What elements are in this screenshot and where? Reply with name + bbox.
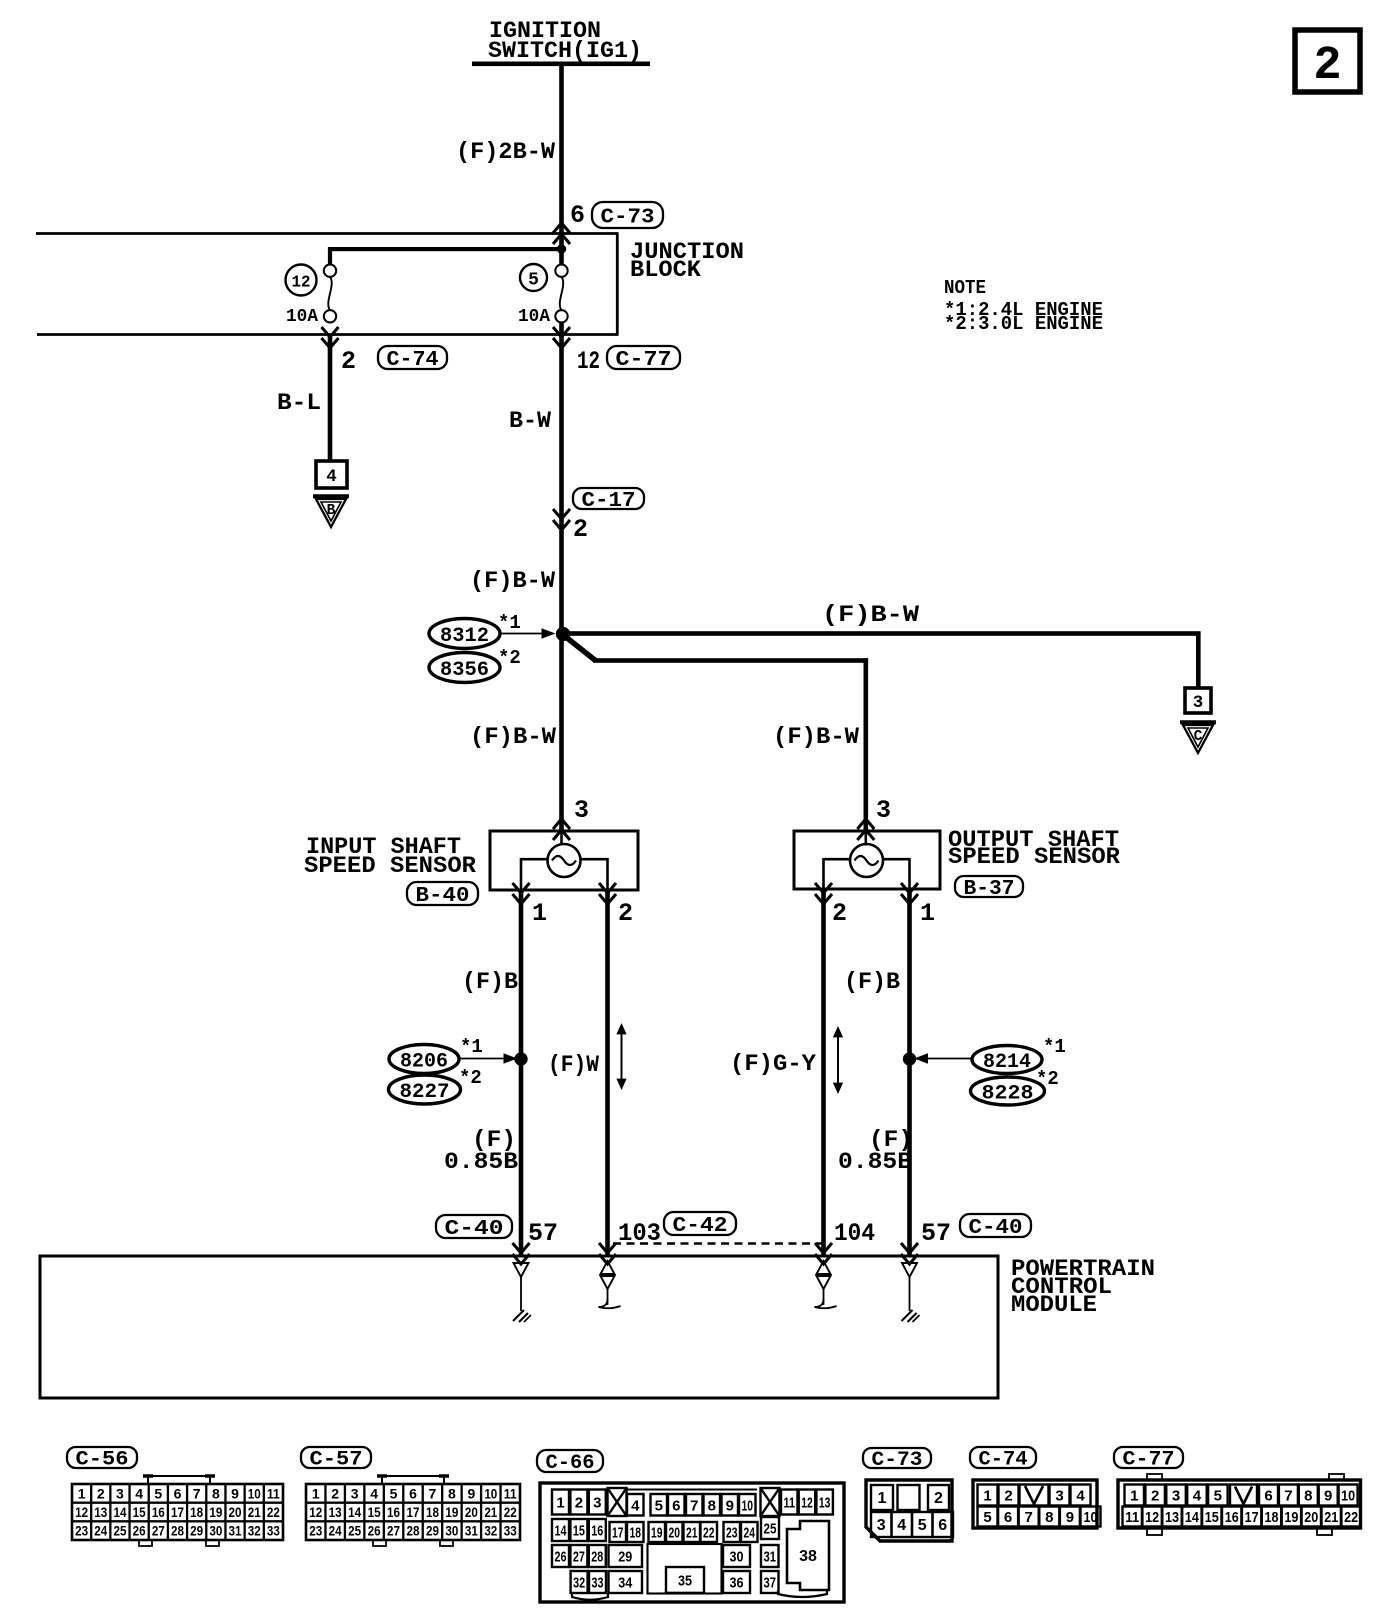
svg-text:23: 23 xyxy=(726,1525,738,1542)
svg-text:38: 38 xyxy=(799,1548,817,1565)
svg-text:(F)B: (F)B xyxy=(462,969,518,996)
svg-text:12: 12 xyxy=(75,1504,88,1520)
svg-text:26: 26 xyxy=(133,1523,146,1539)
svg-text:30: 30 xyxy=(730,1549,744,1566)
svg-text:21: 21 xyxy=(248,1504,261,1520)
svg-text:2: 2 xyxy=(573,515,588,544)
svg-text:B: B xyxy=(327,503,336,519)
svg-text:7: 7 xyxy=(1025,1509,1033,1526)
svg-text:26: 26 xyxy=(555,1549,567,1566)
svg-text:2: 2 xyxy=(97,1485,105,1501)
svg-text:C-56: C-56 xyxy=(76,1449,129,1472)
svg-text:14: 14 xyxy=(113,1504,126,1520)
svg-text:36: 36 xyxy=(730,1575,744,1592)
svg-text:17: 17 xyxy=(407,1504,420,1520)
svg-text:(F)B-W: (F)B-W xyxy=(773,724,860,751)
svg-text:5: 5 xyxy=(655,1497,663,1514)
svg-text:5: 5 xyxy=(918,1517,927,1534)
svg-text:*2: *2 xyxy=(498,647,521,669)
svg-text:27: 27 xyxy=(152,1523,165,1539)
svg-text:25: 25 xyxy=(113,1523,126,1539)
svg-text:13: 13 xyxy=(94,1504,107,1520)
svg-text:*1: *1 xyxy=(498,612,521,634)
svg-text:12: 12 xyxy=(1145,1509,1159,1526)
svg-text:C: C xyxy=(1194,729,1203,745)
svg-text:3: 3 xyxy=(574,796,589,825)
svg-text:12: 12 xyxy=(801,1495,813,1512)
svg-text:18: 18 xyxy=(190,1504,203,1520)
svg-text:28: 28 xyxy=(407,1523,420,1539)
svg-text:8: 8 xyxy=(212,1485,220,1501)
svg-text:11: 11 xyxy=(504,1485,517,1501)
svg-text:C-74: C-74 xyxy=(979,1449,1028,1472)
svg-text:22: 22 xyxy=(504,1504,517,1520)
svg-text:15: 15 xyxy=(1205,1509,1219,1526)
svg-text:13: 13 xyxy=(329,1504,342,1520)
svg-text:5: 5 xyxy=(154,1485,162,1501)
svg-text:8: 8 xyxy=(708,1497,716,1514)
svg-text:C-77: C-77 xyxy=(1123,1449,1175,1472)
svg-text:8214: 8214 xyxy=(983,1051,1031,1074)
svg-text:6: 6 xyxy=(570,201,585,230)
svg-text:32: 32 xyxy=(573,1575,585,1592)
svg-text:6: 6 xyxy=(938,1517,947,1534)
svg-text:12: 12 xyxy=(292,274,311,293)
svg-text:5: 5 xyxy=(983,1509,991,1526)
svg-text:B-37: B-37 xyxy=(964,878,1015,901)
svg-text:10A: 10A xyxy=(286,307,318,327)
svg-text:17: 17 xyxy=(612,1525,624,1542)
svg-text:4: 4 xyxy=(135,1485,143,1501)
svg-text:*1: *1 xyxy=(1043,1036,1066,1058)
svg-text:1: 1 xyxy=(878,1490,887,1507)
svg-text:30: 30 xyxy=(445,1523,458,1539)
svg-text:5: 5 xyxy=(390,1485,398,1501)
svg-text:24: 24 xyxy=(329,1523,342,1539)
svg-text:8228: 8228 xyxy=(982,1083,1034,1106)
svg-text:(F)G-Y: (F)G-Y xyxy=(730,1051,817,1078)
svg-text:10: 10 xyxy=(484,1485,497,1501)
svg-text:SWITCH(IG1): SWITCH(IG1) xyxy=(488,38,642,65)
svg-text:C-77: C-77 xyxy=(616,349,672,372)
svg-text:(F)2B-W: (F)2B-W xyxy=(456,139,556,166)
svg-text:2: 2 xyxy=(1004,1488,1012,1505)
svg-text:17: 17 xyxy=(171,1504,184,1520)
svg-text:7: 7 xyxy=(690,1497,698,1514)
svg-text:6: 6 xyxy=(1004,1509,1012,1526)
svg-text:21: 21 xyxy=(686,1525,698,1542)
svg-text:25: 25 xyxy=(764,1521,777,1538)
svg-text:3: 3 xyxy=(593,1495,601,1512)
svg-text:7: 7 xyxy=(193,1485,201,1501)
svg-text:18: 18 xyxy=(426,1504,439,1520)
svg-text:2: 2 xyxy=(1313,40,1341,93)
svg-text:16: 16 xyxy=(387,1504,400,1520)
svg-text:3: 3 xyxy=(1193,693,1204,713)
svg-text:23: 23 xyxy=(75,1523,88,1539)
svg-text:3: 3 xyxy=(1055,1488,1063,1505)
svg-text:C-57: C-57 xyxy=(310,1449,363,1472)
svg-text:1: 1 xyxy=(556,1495,564,1512)
svg-text:10A: 10A xyxy=(518,307,550,327)
svg-text:10: 10 xyxy=(1341,1488,1355,1505)
svg-text:*1: *1 xyxy=(460,1036,483,1058)
svg-text:4: 4 xyxy=(897,1517,906,1534)
svg-text:8: 8 xyxy=(1045,1509,1053,1526)
svg-text:(F)B-W: (F)B-W xyxy=(470,724,557,751)
svg-text:19: 19 xyxy=(651,1525,663,1542)
svg-text:C-40: C-40 xyxy=(445,1218,504,1241)
svg-text:C-17: C-17 xyxy=(582,490,636,513)
svg-text:11: 11 xyxy=(1125,1509,1139,1526)
svg-text:8: 8 xyxy=(448,1485,456,1501)
svg-text:2: 2 xyxy=(341,347,356,376)
svg-text:21: 21 xyxy=(1324,1509,1338,1526)
svg-text:33: 33 xyxy=(504,1523,517,1539)
svg-text:9: 9 xyxy=(467,1485,475,1501)
svg-text:2: 2 xyxy=(618,899,633,928)
svg-text:2: 2 xyxy=(1151,1488,1159,1505)
svg-text:21: 21 xyxy=(484,1504,497,1520)
svg-text:2: 2 xyxy=(331,1485,339,1501)
svg-text:18: 18 xyxy=(1265,1509,1279,1526)
svg-text:6: 6 xyxy=(409,1485,417,1501)
svg-text:37: 37 xyxy=(764,1575,777,1592)
svg-text:31: 31 xyxy=(764,1549,777,1566)
svg-text:1: 1 xyxy=(1130,1488,1138,1505)
svg-text:18: 18 xyxy=(630,1525,642,1542)
svg-text:15: 15 xyxy=(133,1504,146,1520)
svg-text:12: 12 xyxy=(309,1504,322,1520)
svg-text:19: 19 xyxy=(445,1504,458,1520)
svg-text:104: 104 xyxy=(834,1219,875,1248)
svg-text:17: 17 xyxy=(1245,1509,1259,1526)
svg-text:12: 12 xyxy=(577,347,600,376)
svg-text:32: 32 xyxy=(484,1523,497,1539)
svg-text:C-73: C-73 xyxy=(872,1449,923,1472)
svg-text:9: 9 xyxy=(1066,1509,1074,1526)
svg-text:C-66: C-66 xyxy=(546,1452,595,1475)
svg-text:2: 2 xyxy=(934,1490,943,1507)
svg-text:22: 22 xyxy=(267,1504,280,1520)
svg-text:29: 29 xyxy=(618,1549,632,1566)
svg-text:14: 14 xyxy=(348,1504,361,1520)
svg-text:C-74: C-74 xyxy=(387,349,439,372)
svg-text:3: 3 xyxy=(351,1485,359,1501)
svg-text:24: 24 xyxy=(744,1525,756,1542)
svg-text:(F)B: (F)B xyxy=(844,969,900,996)
svg-text:6: 6 xyxy=(672,1497,680,1514)
svg-text:35: 35 xyxy=(678,1573,692,1590)
svg-text:3: 3 xyxy=(877,1517,886,1534)
svg-text:*2: *2 xyxy=(459,1067,482,1089)
svg-text:15: 15 xyxy=(573,1523,585,1540)
svg-text:5: 5 xyxy=(1214,1488,1222,1505)
svg-text:8: 8 xyxy=(1304,1488,1312,1505)
svg-text:31: 31 xyxy=(465,1523,478,1539)
svg-text:4: 4 xyxy=(370,1485,378,1501)
svg-text:0.85B: 0.85B xyxy=(444,1149,518,1176)
svg-text:33: 33 xyxy=(267,1523,280,1539)
svg-text:33: 33 xyxy=(592,1575,604,1592)
svg-text:7: 7 xyxy=(429,1485,437,1501)
svg-text:57: 57 xyxy=(921,1219,951,1248)
svg-text:11: 11 xyxy=(267,1485,280,1501)
svg-text:2: 2 xyxy=(832,899,847,928)
svg-text:20: 20 xyxy=(669,1525,681,1542)
svg-text:B-L: B-L xyxy=(277,390,321,417)
svg-text:3: 3 xyxy=(116,1485,124,1501)
svg-text:1: 1 xyxy=(78,1485,86,1501)
svg-text:*2: *2 xyxy=(1036,1068,1059,1090)
svg-text:10: 10 xyxy=(248,1485,261,1501)
svg-text:22: 22 xyxy=(1344,1509,1358,1526)
svg-text:4: 4 xyxy=(1076,1488,1085,1505)
svg-text:16: 16 xyxy=(1225,1509,1239,1526)
svg-text:9: 9 xyxy=(1324,1488,1332,1505)
svg-text:*2:3.0L ENGINE: *2:3.0L ENGINE xyxy=(944,313,1103,335)
svg-text:57: 57 xyxy=(528,1219,558,1248)
svg-text:4: 4 xyxy=(1193,1488,1202,1505)
svg-text:SPEED SENSOR: SPEED SENSOR xyxy=(304,853,477,880)
svg-text:20: 20 xyxy=(1304,1509,1318,1526)
svg-text:1: 1 xyxy=(312,1485,320,1501)
svg-text:(F)B-W: (F)B-W xyxy=(470,568,556,595)
svg-text:27: 27 xyxy=(387,1523,400,1539)
svg-text:16: 16 xyxy=(591,1523,603,1540)
svg-text:(F)W: (F)W xyxy=(548,1052,600,1079)
svg-text:3: 3 xyxy=(876,796,891,825)
svg-text:8356: 8356 xyxy=(440,659,489,682)
svg-text:9: 9 xyxy=(231,1485,239,1501)
svg-text:14: 14 xyxy=(555,1523,567,1540)
svg-text:34: 34 xyxy=(618,1575,633,1592)
svg-text:9: 9 xyxy=(726,1497,734,1514)
svg-text:6: 6 xyxy=(1264,1488,1272,1505)
svg-text:26: 26 xyxy=(368,1523,381,1539)
svg-text:28: 28 xyxy=(171,1523,184,1539)
svg-text:8227: 8227 xyxy=(400,1081,450,1104)
svg-text:19: 19 xyxy=(1284,1509,1298,1526)
svg-text:22: 22 xyxy=(703,1525,715,1542)
svg-text:23: 23 xyxy=(309,1523,322,1539)
svg-text:3: 3 xyxy=(1172,1488,1180,1505)
svg-text:MODULE: MODULE xyxy=(1011,1292,1097,1319)
svg-text:28: 28 xyxy=(591,1549,603,1566)
svg-text:20: 20 xyxy=(465,1504,478,1520)
svg-text:13: 13 xyxy=(1165,1509,1179,1526)
svg-text:29: 29 xyxy=(190,1523,203,1539)
svg-text:29: 29 xyxy=(426,1523,439,1539)
svg-text:1: 1 xyxy=(532,899,547,928)
svg-text:14: 14 xyxy=(1185,1509,1200,1526)
svg-text:NOTE: NOTE xyxy=(944,277,986,299)
svg-text:C-73: C-73 xyxy=(601,207,655,230)
svg-text:1: 1 xyxy=(983,1488,991,1505)
svg-text:6: 6 xyxy=(174,1485,182,1501)
svg-text:5: 5 xyxy=(528,271,539,291)
svg-text:32: 32 xyxy=(248,1523,261,1539)
svg-text:20: 20 xyxy=(229,1504,242,1520)
svg-text:4: 4 xyxy=(326,467,337,487)
svg-text:C-40: C-40 xyxy=(969,1217,1023,1240)
svg-text:8312: 8312 xyxy=(440,625,489,648)
svg-text:2: 2 xyxy=(575,1495,583,1512)
svg-text:30: 30 xyxy=(209,1523,222,1539)
svg-text:BLOCK: BLOCK xyxy=(630,257,702,284)
svg-text:8206: 8206 xyxy=(400,1051,448,1074)
svg-text:10: 10 xyxy=(742,1497,754,1514)
svg-text:24: 24 xyxy=(94,1523,107,1539)
svg-text:13: 13 xyxy=(819,1495,831,1512)
svg-text:B-40: B-40 xyxy=(416,885,470,908)
svg-text:1: 1 xyxy=(920,899,935,928)
svg-text:10: 10 xyxy=(1084,1509,1098,1526)
svg-text:0.85B: 0.85B xyxy=(838,1149,912,1176)
svg-text:31: 31 xyxy=(229,1523,242,1539)
svg-text:SPEED SENSOR: SPEED SENSOR xyxy=(948,844,1121,871)
svg-text:(F)B-W: (F)B-W xyxy=(822,602,920,629)
svg-text:C-42: C-42 xyxy=(673,1215,728,1238)
svg-text:B-W: B-W xyxy=(509,408,552,435)
svg-text:11: 11 xyxy=(784,1495,796,1512)
svg-text:16: 16 xyxy=(152,1504,165,1520)
svg-text:4: 4 xyxy=(631,1497,640,1514)
svg-text:25: 25 xyxy=(348,1523,361,1539)
svg-text:15: 15 xyxy=(368,1504,381,1520)
svg-text:27: 27 xyxy=(573,1549,585,1566)
svg-text:19: 19 xyxy=(209,1504,222,1520)
svg-text:7: 7 xyxy=(1284,1488,1292,1505)
